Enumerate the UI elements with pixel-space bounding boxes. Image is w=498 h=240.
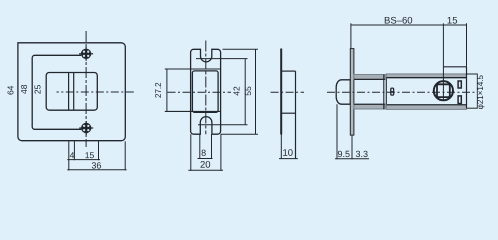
svg-text:15: 15: [85, 150, 95, 160]
svg-text:55: 55: [243, 86, 253, 96]
svg-text:3.3: 3.3: [356, 149, 369, 159]
svg-text:15: 15: [447, 15, 458, 26]
svg-text:20: 20: [200, 160, 211, 171]
svg-text:42: 42: [232, 86, 242, 96]
svg-text:64: 64: [5, 85, 15, 95]
svg-text:8: 8: [201, 148, 206, 158]
svg-text:10: 10: [283, 148, 294, 159]
svg-text:φ21×14.5: φ21×14.5: [476, 74, 485, 109]
svg-text:9.5: 9.5: [338, 149, 351, 159]
svg-text:48: 48: [19, 84, 29, 94]
svg-text:36: 36: [91, 160, 101, 170]
svg-text:4: 4: [70, 150, 75, 160]
svg-text:25: 25: [33, 84, 43, 94]
svg-text:BS–60: BS–60: [384, 15, 413, 26]
svg-text:27.2: 27.2: [154, 82, 163, 98]
